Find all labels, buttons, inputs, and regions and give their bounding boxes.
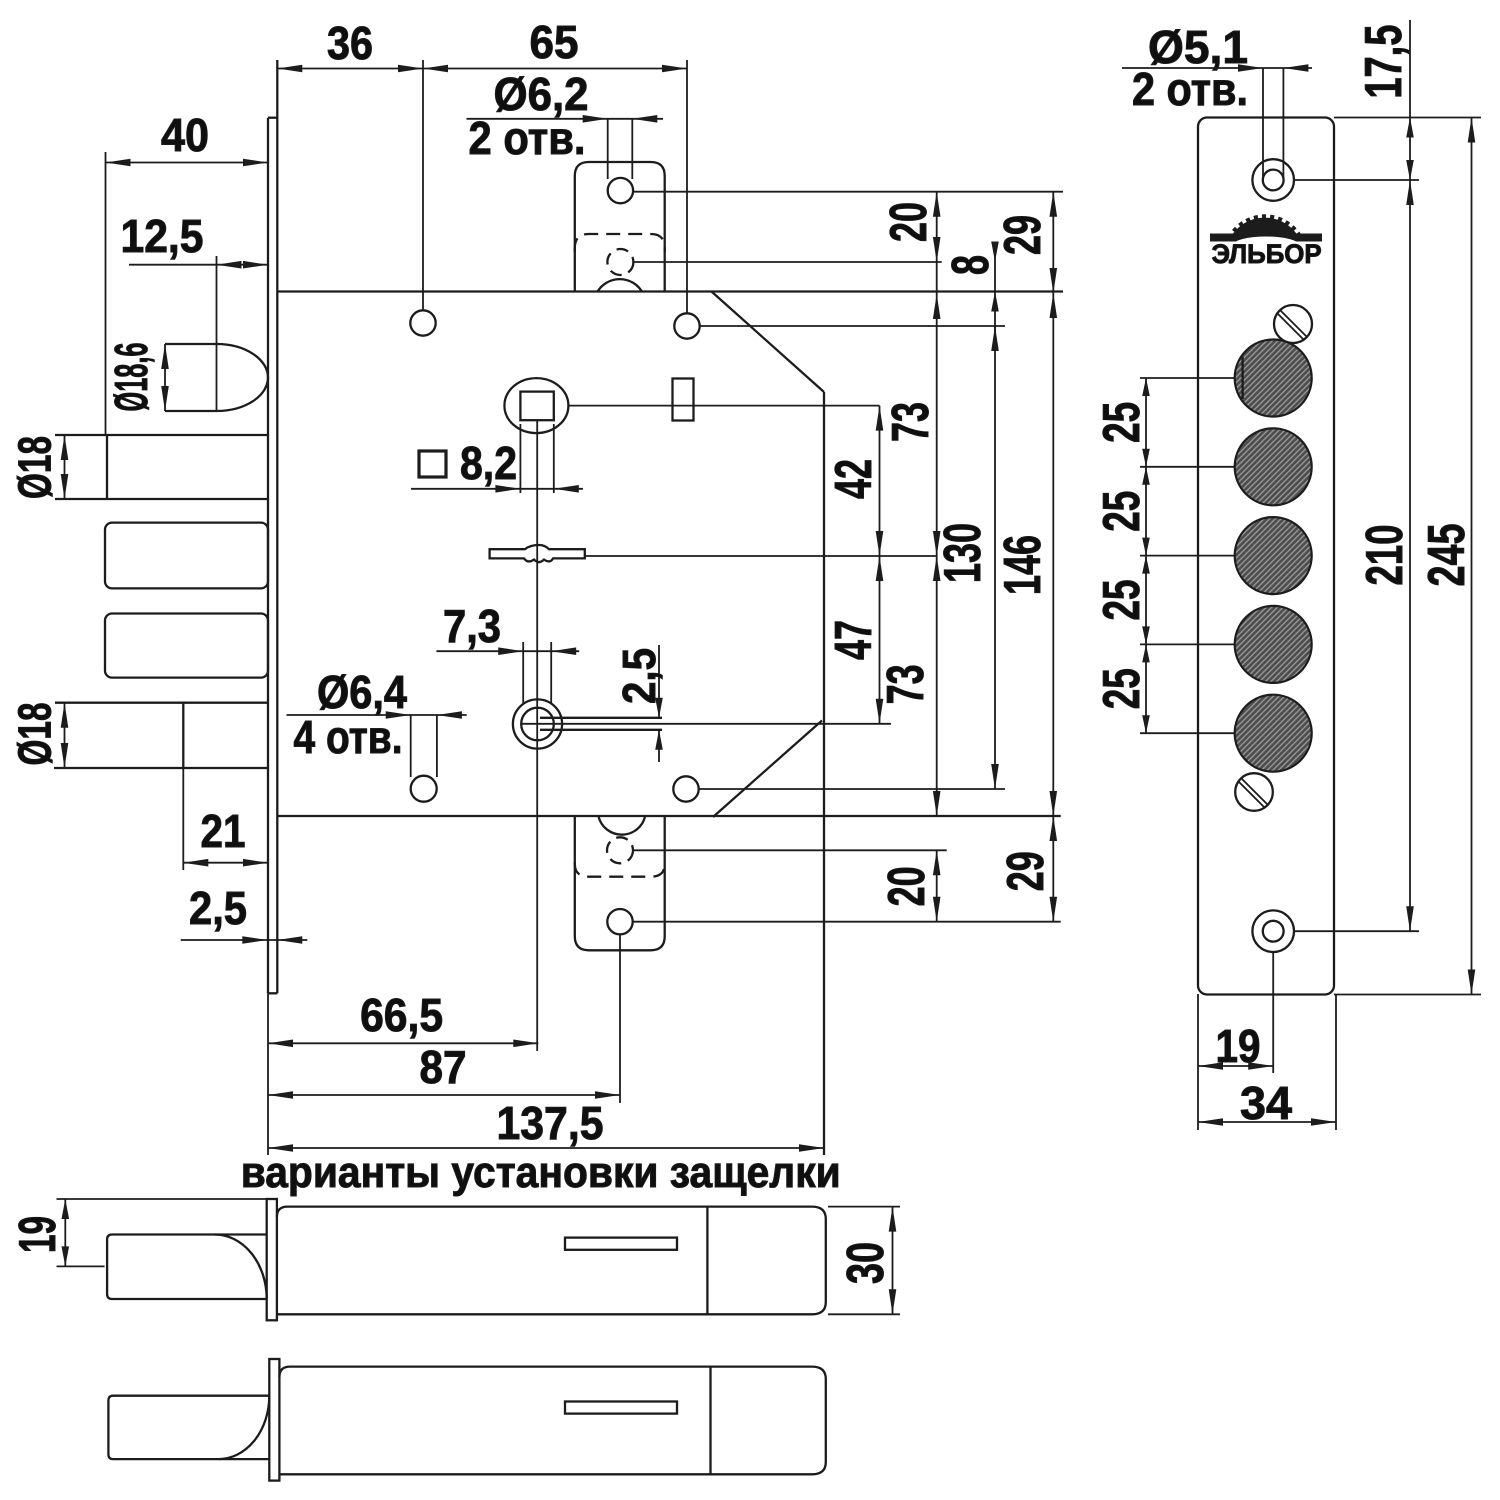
leader bottom tab dashed hole: [633, 849, 947, 851]
bottom tab dashed hole: [607, 837, 633, 863]
svg-text:21: 21: [201, 805, 246, 857]
svg-text:29: 29: [997, 851, 1055, 891]
spindle centre line down to dims: [536, 420, 538, 1051]
top screw hole outer: [1252, 159, 1294, 201]
bottom screw hole outer: [1252, 910, 1294, 952]
latch variant 1 slot: [565, 1238, 677, 1250]
svg-text:36: 36: [327, 17, 373, 69]
leader bottom-right body hole: [699, 788, 1005, 790]
dim 29 bottom: [1052, 816, 1054, 922]
dim 73 upper: [936, 262, 938, 816]
svg-text:7,3: 7,3: [443, 600, 501, 652]
dim 29 top: [1052, 192, 1054, 293]
svg-text:8,2: 8,2: [460, 437, 517, 489]
svg-text:40: 40: [161, 109, 209, 161]
lock body left edge / faceplate inner face: [276, 60, 278, 993]
bottom screw hole inner: [1263, 921, 1284, 942]
bolt hole 3 (hatched): [1235, 517, 1312, 594]
svg-text:47: 47: [825, 620, 883, 660]
dim 66.5: [268, 1042, 538, 1044]
bottom tab large hole arc below body edge: [598, 816, 645, 835]
dim 7.3: [522, 642, 524, 703]
svg-text:4 отв.: 4 отв.: [294, 711, 403, 763]
svg-text:245: 245: [1418, 524, 1476, 587]
dim 146: [1052, 293, 1054, 816]
dim d18.6: [164, 344, 166, 411]
svg-text:25: 25: [1093, 580, 1151, 621]
body bottom edge (extended right): [277, 815, 1060, 817]
leader from lever to right dims: [585, 555, 937, 557]
dim 20 top: [936, 192, 938, 262]
key slot lines: [540, 717, 662, 719]
dim chain 25 x4: [1140, 377, 1235, 379]
latch variant 2 divider: [709, 1367, 711, 1475]
latch variant 2 slot: [565, 1402, 677, 1414]
latch variant 1 divider: [706, 1207, 708, 1315]
bolt hole 5 (hatched): [1235, 695, 1312, 772]
dim 2.5 key slot: [658, 645, 660, 718]
dim 19 faceplate: [1197, 994, 1199, 1130]
svg-text:87: 87: [420, 1041, 467, 1093]
dim sq8.2: [519, 424, 521, 493]
top tab large hole arc above body edge: [598, 279, 642, 291]
top tab dashed alternate position: [575, 234, 665, 252]
latch variant 2 flange: [269, 1359, 279, 1481]
svg-text:34: 34: [1240, 1077, 1292, 1129]
dim 21: [182, 768, 184, 870]
dim 47: [876, 556, 884, 581]
dim 34 faceplate: [1335, 994, 1337, 1130]
dim 30 latch: [828, 1206, 900, 1208]
bolt hole 1 (hatched): [1235, 340, 1312, 417]
svg-text:137,5: 137,5: [497, 1097, 604, 1149]
deadbolt 3: [105, 614, 268, 678]
svg-text:2,5: 2,5: [189, 882, 247, 934]
leader bottom tab hole: [633, 921, 1061, 923]
body right edge (extended down as extension line): [823, 392, 825, 1155]
top tab dashed hole: [607, 249, 633, 275]
fixing hole top-right (6.4): [674, 313, 699, 338]
dim 137.5: [267, 993, 269, 1155]
spindle boss ellipse: [504, 378, 568, 433]
dim 8: [994, 248, 996, 335]
svg-text:25: 25: [1093, 402, 1151, 443]
ELBOR logo: [1210, 217, 1322, 268]
svg-text:Ø18,6: Ø18,6: [105, 343, 157, 412]
svg-text:ЭЛЬБОР: ЭЛЬБОР: [1212, 239, 1322, 269]
bottom strike tab outline: [575, 816, 665, 950]
key slot centre leader: [521, 723, 891, 725]
svg-text:2 отв.: 2 отв.: [469, 112, 586, 164]
dim d18 top: [64, 435, 66, 499]
dim 130: [994, 326, 996, 789]
svg-text:42: 42: [825, 459, 883, 499]
dim 36/65 top: [277, 68, 687, 70]
svg-text:Ø18: Ø18: [9, 703, 61, 766]
body top-right bevel: [712, 292, 825, 393]
leader top-right body hole: [700, 325, 1005, 327]
lock body top edge (extended right as extension line): [277, 290, 1063, 292]
svg-text:25: 25: [1093, 668, 1151, 709]
fixing hole bottom-left (6.4): [411, 776, 437, 802]
svg-text:19: 19: [1216, 1020, 1261, 1072]
dim 42: [879, 406, 881, 724]
lock lever bar: [490, 545, 585, 562]
square spindle hole 8.2: [520, 392, 553, 421]
latch variant 2 bolt: [108, 1396, 269, 1459]
faceplate front outline: [1198, 118, 1334, 995]
interior diagonal at bottom-right: [713, 721, 822, 818]
lock faceplate side view (front plate strip): [267, 118, 269, 994]
leader top tab hole: [633, 191, 1063, 193]
latch variant 2 body: [279, 1367, 825, 1475]
leader top tab dashed hole: [633, 261, 941, 263]
keyhole outer circle: [513, 699, 562, 748]
svg-text:12,5: 12,5: [121, 210, 204, 262]
svg-text:73: 73: [882, 402, 940, 442]
deadbolt 2: [105, 523, 268, 589]
svg-text:65: 65: [530, 16, 579, 68]
latch variant 1 bolt: [107, 1235, 267, 1300]
svg-text:130: 130: [934, 523, 992, 583]
svg-text:2,5: 2,5: [613, 648, 665, 704]
dim 19 latch: [57, 1198, 267, 1200]
svg-text:8: 8: [942, 255, 1000, 275]
svg-text:варианты установки защелки: варианты установки защелки: [241, 1148, 841, 1197]
bottom tab dashed alternate position: [575, 862, 665, 877]
svg-text:17,5: 17,5: [1355, 25, 1413, 99]
dim 73 lower: [933, 556, 941, 581]
dim 210: [1294, 930, 1419, 932]
latch variant 2 bolt bevel: [219, 1396, 270, 1459]
dim 2.5 faceplate thickness: [181, 939, 308, 941]
fixing hole bottom-right (6.4): [673, 776, 698, 801]
leader from spindle to right dims: [568, 405, 879, 407]
latch variant 1 bolt bevel: [215, 1235, 267, 1300]
bottom tab screw hole (6.2): [607, 909, 632, 934]
svg-text:2 отв.: 2 отв.: [1132, 63, 1248, 115]
svg-text:210: 210: [1356, 525, 1414, 586]
svg-text:25: 25: [1093, 491, 1151, 532]
svg-text:20: 20: [880, 202, 938, 242]
svg-text:Ø18: Ø18: [9, 436, 61, 499]
bolt hole 2 (hatched): [1235, 428, 1312, 505]
deadbolt 1 (d18): [55, 434, 268, 436]
dim 17.5: [1334, 117, 1481, 119]
flat chord on bolt hole 1: [1241, 357, 1243, 399]
top screw hole inner: [1263, 170, 1284, 191]
keyhole inner circle: [521, 708, 554, 741]
top tab screw hole (6.2): [608, 178, 633, 203]
svg-text:30: 30: [837, 1242, 895, 1284]
svg-text:20: 20: [878, 866, 936, 906]
deadbolt half-round head (18.6) side view: [165, 343, 217, 345]
dim 87: [619, 934, 621, 1103]
dim 40: [106, 162, 269, 164]
dim 20 bottom: [936, 850, 938, 921]
svg-text:29: 29: [994, 215, 1052, 255]
latch variant 1 flange: [267, 1199, 277, 1320]
lower bolt (d18): [55, 702, 268, 704]
bottom fixing screw: [1235, 773, 1273, 811]
dim 245: [1334, 994, 1481, 996]
dim 12.5: [129, 264, 268, 266]
bolt hole 4 (hatched): [1235, 606, 1312, 683]
small rectangular hole top right: [673, 379, 694, 421]
fixing hole top-left (6.4): [410, 310, 435, 335]
latch variant 1 body: [277, 1207, 826, 1315]
top strike tab outline: [575, 162, 665, 292]
svg-text:73: 73: [877, 664, 935, 704]
svg-text:66,5: 66,5: [360, 989, 443, 1041]
top fixing screw: [1274, 305, 1312, 343]
svg-text:19: 19: [9, 1216, 67, 1253]
svg-text:146: 146: [994, 535, 1052, 595]
dim d18 bottom: [64, 703, 66, 768]
